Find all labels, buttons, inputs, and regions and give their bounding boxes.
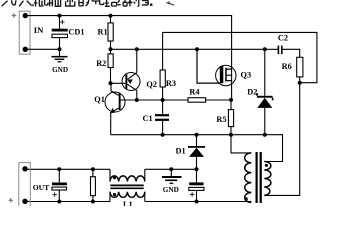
terminal pin OUT-1 [22, 166, 27, 171]
node: gate branch junction [195, 47, 199, 51]
capacitor C1 [162, 100, 164, 135]
capacitor (output electrolytic, mid) [189, 182, 203, 185]
svg-text:CD1: CD1 [68, 28, 84, 37]
node: mid cap bottom [195, 200, 199, 204]
node: CD1 bottom junction [58, 47, 62, 51]
node: Q2 emitter junction [135, 47, 139, 51]
svg-text:IN: IN [34, 25, 44, 35]
svg-text:C2: C2 [278, 34, 288, 43]
capacitor CD1 leads [59, 16, 61, 50]
wire: top rail from IN+ to Q3 drain [25, 16, 231, 100]
wire: gate branch [197, 49, 220, 83]
title text (clipped chinese line bottom strokes) [2, 0, 149, 7]
node: R3 bottom / C1 top junction [161, 98, 165, 102]
resistor R5 [230, 100, 232, 135]
node: D2 bottom junction [263, 133, 267, 137]
transistor Q1 (NPN) [105, 83, 125, 134]
inductor L1 bottom winding [110, 192, 145, 202]
resistor R1 [110, 16, 112, 50]
svg-text:GND: GND [52, 66, 68, 74]
node: D2/C2 junction [263, 47, 267, 51]
transformer T1 secondary winding [264, 162, 271, 196]
node: Q2 collector junction [135, 98, 139, 102]
node: C1 bottom junction [161, 133, 165, 137]
node: out cap top [57, 167, 61, 171]
svg-text:D1: D1 [176, 147, 186, 156]
capacitor C2 [278, 46, 280, 55]
wire: Q3 source to R4/R5 node [229, 98, 233, 102]
connector J-IN box [19, 11, 30, 54]
core of T1 [257, 152, 261, 203]
node: out cap bottom [57, 200, 61, 204]
fullwidth colon of title [150, 4, 152, 6]
svg-text:R3: R3 [166, 79, 176, 88]
inductor L1 (common-mode choke) top winding [110, 169, 145, 181]
node: R1/R2 junction [109, 47, 113, 51]
svg-text:Q2: Q2 [146, 80, 157, 89]
wire: to Q2 base [111, 82, 126, 84]
terminal pin IN-1 [23, 13, 28, 18]
diode D1 [196, 135, 198, 183]
svg-text:R5: R5 [216, 115, 226, 124]
capacitor CD1 plates [52, 29, 68, 32]
diode D2 (zener) [264, 49, 266, 134]
resistor R3 [162, 32, 164, 100]
wire: drive rail [111, 48, 278, 50]
connector J-OUT box [19, 163, 31, 209]
phase dot L1 top [113, 176, 116, 179]
transistor Q2 (PNP) [122, 49, 140, 100]
core of L1 [110, 185, 143, 188]
svg-text:L1: L1 [123, 200, 133, 206]
svg-text:GND: GND [163, 186, 179, 194]
node: D1 top junction [195, 133, 199, 137]
phase dot T1 secondary [265, 164, 268, 167]
transformer T1 primary feed [231, 135, 251, 153]
wire: common mid rail [111, 135, 283, 162]
resistor R4 [188, 98, 206, 103]
terminal pin IN-2 [23, 47, 28, 52]
svg-text:OUT: OUT [33, 183, 49, 192]
polarity + (input) [12, 13, 17, 18]
phase dot L1 bottom [113, 193, 116, 196]
svg-text:D2: D2 [247, 87, 257, 96]
wire: secondary return rail (output +) [25, 168, 197, 170]
wire: right side down to secondary [264, 83, 299, 196]
phase dot T1 primary [245, 197, 248, 200]
svg-text:R4: R4 [189, 87, 199, 96]
svg-text:Q1: Q1 [94, 95, 105, 104]
capacitor (output electrolytic, left) [58, 169, 60, 201]
wire: bottom rail [25, 201, 251, 203]
svg-text:Q3: Q3 [241, 70, 252, 79]
svg-text:R6: R6 [282, 62, 292, 71]
svg-text:R1: R1 [98, 27, 108, 36]
node: R1 top junction [109, 14, 113, 18]
wire: IN- to CD1 bottom [25, 48, 59, 50]
wire: Q1 base bus (mid wire) [121, 99, 231, 101]
node: R6 bottom junction [298, 81, 302, 85]
node: mid cap / D1 anode junction [195, 167, 199, 171]
CD1 polarity + [60, 20, 64, 24]
mosfet Q3 [216, 65, 236, 85]
node: CD1 top junction [58, 14, 62, 18]
resistor R6 [297, 57, 303, 77]
transformer T1 primary winding [245, 153, 252, 203]
ground GND (output) [162, 169, 182, 183]
svg-text:C1: C1 [143, 114, 153, 123]
node: R2 bottom / Q2 base / Q1 collector [109, 81, 113, 85]
node: bleeder top [91, 167, 95, 171]
polarity + (output) [9, 198, 14, 203]
ground GND (input) [52, 49, 68, 62]
resistor R2 [110, 49, 112, 83]
terminal pin OUT-2 [22, 199, 27, 204]
resistor (output bleeder) [92, 169, 94, 201]
svg-text:R2: R2 [96, 59, 106, 68]
paragraph return mark [169, 3, 174, 5]
node: R5 bottom / primary junction [229, 133, 233, 137]
node: bleeder bottom [91, 200, 95, 204]
wire: snubber return loop [163, 32, 317, 82]
